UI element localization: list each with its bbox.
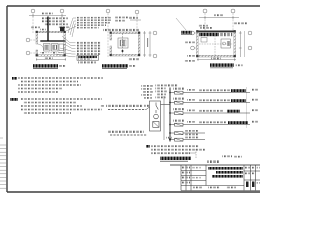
room walls <box>110 32 140 34</box>
room wall bottom <box>36 55 66 57</box>
axis circle 8 <box>203 9 207 13</box>
incoming cable label 1 <box>100 105 105 107</box>
interior equipment box <box>221 39 231 48</box>
feeder row 2 <box>170 98 259 105</box>
incoming leader dashes 1 <box>108 109 146 111</box>
left axis circle 10 <box>191 31 195 35</box>
caption: pump room power plan <box>33 64 58 67</box>
column line <box>246 87 248 128</box>
axis circle 7a <box>153 31 157 35</box>
notes2 line 2 <box>23 102 77 104</box>
label row b <box>76 45 102 47</box>
interior dashed riser <box>122 34 124 55</box>
pump unit 3 <box>59 44 64 51</box>
dimension line top <box>199 17 239 19</box>
axis dashed horizontals <box>30 39 37 41</box>
table outer <box>181 165 260 191</box>
notes1 line 2 <box>21 81 78 83</box>
caption leader <box>185 152 196 154</box>
left margin revision table stubs <box>0 138 7 188</box>
small box left interior <box>201 38 207 43</box>
signature smudges left <box>182 167 201 184</box>
small dim text below <box>128 58 139 60</box>
right short dim text <box>234 22 247 24</box>
axis dashed verticals <box>107 13 109 57</box>
right cells texts <box>245 167 250 169</box>
bus top label <box>167 84 179 86</box>
notes2 line 4 <box>20 109 102 111</box>
spare row 1 <box>170 130 205 135</box>
door arc <box>38 44 44 50</box>
thick feeder line vertical <box>47 17 49 42</box>
axis circle 7b <box>153 54 157 58</box>
room wall right <box>234 31 236 58</box>
label row c <box>76 48 101 50</box>
isolator switch <box>155 103 157 106</box>
axis circle 6 <box>135 10 139 14</box>
AA1 label <box>144 105 150 107</box>
label row e <box>76 53 101 55</box>
incoming leader dashes 2 <box>110 134 147 136</box>
wall corner blocks <box>36 31 66 57</box>
dimension line top <box>29 15 66 17</box>
label row above room <box>103 29 140 31</box>
label row 2 <box>76 19 113 21</box>
control box AA1 in plan <box>60 27 65 32</box>
dashed service lines <box>214 33 216 55</box>
left axis circle 3 <box>26 38 30 42</box>
panel header text block col2 <box>156 85 167 87</box>
equipment label rows above room <box>42 17 68 19</box>
notes2 line 1 <box>20 98 102 100</box>
wire dashes inside room <box>40 52 63 54</box>
system caption <box>160 157 191 160</box>
axis circle 9 <box>231 9 235 13</box>
dim lines <box>130 19 141 21</box>
label row 1 <box>76 17 113 19</box>
bus bottom arrow <box>169 139 171 142</box>
room wall right <box>64 31 66 56</box>
bus junction dots <box>169 92 170 140</box>
system notes <box>146 145 150 148</box>
small scale text above table <box>207 160 219 163</box>
leader labels top-left <box>198 25 208 27</box>
table top line <box>170 164 260 166</box>
main breaker <box>153 122 159 128</box>
axis circle 2 <box>60 9 64 13</box>
bottom dim line <box>197 59 236 61</box>
interior equipment box <box>118 38 128 48</box>
room wall top <box>36 31 66 33</box>
boxed panel label <box>77 55 99 60</box>
internal horizontals <box>181 170 206 172</box>
kWh meter <box>154 114 159 119</box>
label row d <box>76 50 102 52</box>
axis circle 5 <box>106 9 110 13</box>
side labels right <box>115 17 128 19</box>
secondary panel column <box>163 96 165 140</box>
feeder row 3 <box>170 108 258 115</box>
room wall top (dark) <box>197 31 236 33</box>
leader lines <box>66 18 76 37</box>
small label left <box>31 27 40 29</box>
notes1 line 5 <box>18 91 58 93</box>
dimension text 7500 <box>42 13 53 15</box>
feeder row 4 <box>170 120 258 127</box>
internal verticals <box>185 165 187 191</box>
room wall bottom <box>197 55 236 57</box>
notes1 line 3 <box>18 84 81 86</box>
caption <box>210 63 234 66</box>
label row 3 <box>76 22 111 24</box>
axis dashed verticals <box>204 13 206 31</box>
spare row 2 <box>166 137 205 142</box>
left axis circle 4 <box>26 51 30 55</box>
bottom row texts <box>193 187 203 189</box>
axis dashed line 1 <box>32 13 34 33</box>
notes1 line 1 <box>18 77 103 79</box>
label row 4 <box>76 24 107 26</box>
notes2 line 3 <box>20 105 82 107</box>
notes2 line 5 <box>23 112 71 114</box>
fixtures row inside top <box>199 33 219 36</box>
main bus <box>169 88 171 142</box>
drawing title text <box>208 167 243 170</box>
notes1 line 4 <box>18 88 62 90</box>
label row 5 <box>76 27 99 29</box>
dimension line bottom <box>36 58 66 60</box>
left axis circle 11 <box>191 46 195 50</box>
wall corners <box>196 30 236 57</box>
border frame <box>7 6 260 192</box>
right axis circle 12 <box>248 31 252 35</box>
wire panel to bus <box>161 104 171 106</box>
right dim line <box>144 31 146 57</box>
feeder row 1 <box>170 88 259 95</box>
pump unit 2 <box>52 44 59 52</box>
axis dashed line 2 <box>61 13 63 33</box>
room wall left <box>197 31 199 58</box>
caption <box>102 64 128 67</box>
axis circle 1 <box>31 9 35 13</box>
leader lines <box>56 36 76 57</box>
panel AA1 box <box>150 101 161 131</box>
pump unit 1 <box>44 44 51 52</box>
label row g <box>78 61 96 63</box>
right dim verticals <box>239 31 241 57</box>
notes2 heading <box>10 98 18 101</box>
right axis circle 13 <box>248 46 252 50</box>
panel header text block col1 <box>142 85 153 87</box>
thick feeder line horizontal <box>40 40 65 42</box>
dashed axis horizontals <box>195 32 198 34</box>
room wall left <box>36 31 38 44</box>
notes1 heading <box>12 77 17 80</box>
incoming cable label 2 <box>108 131 144 133</box>
label row a <box>76 42 102 44</box>
